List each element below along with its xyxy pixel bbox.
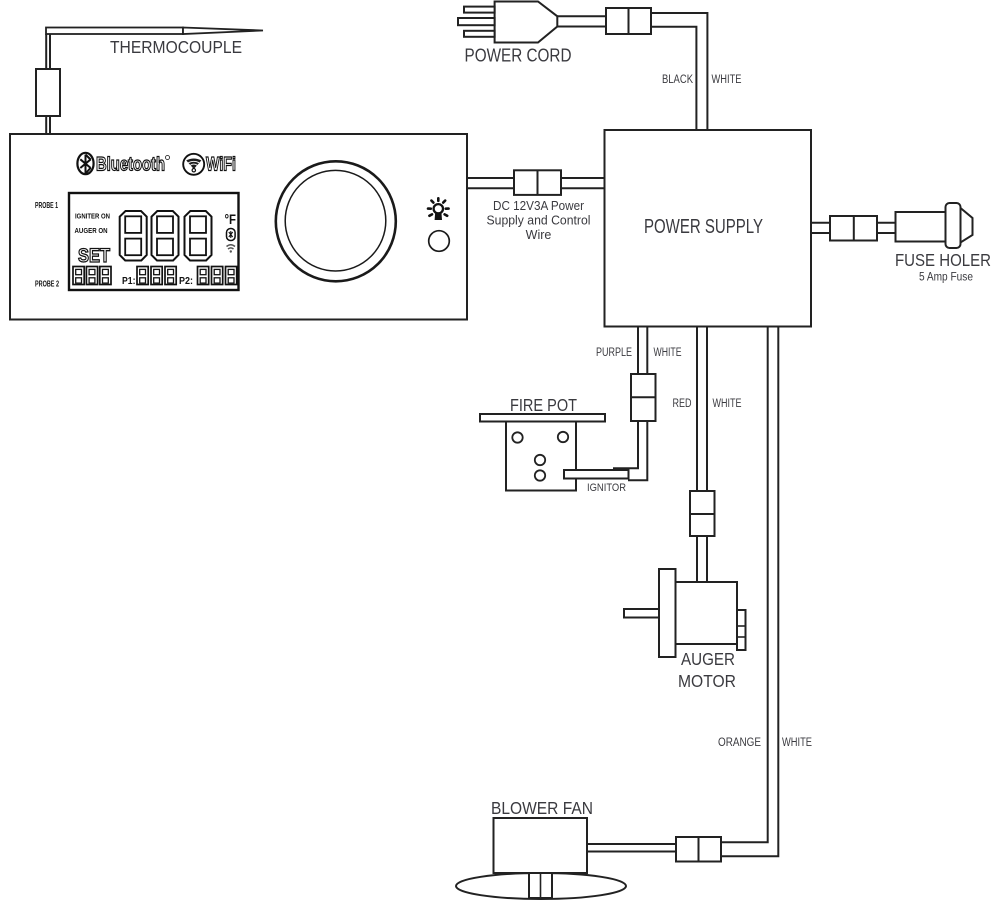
red/white wire pair upper (697, 327, 707, 492)
plug prong 3 (464, 31, 495, 37)
svg-text:POWER SUPPLY: POWER SUPPLY (644, 216, 763, 238)
svg-text:Bluetooth: Bluetooth (96, 154, 165, 176)
light icon (428, 198, 449, 220)
svg-text:WHITE: WHITE (712, 74, 742, 86)
fuse holder nose (961, 208, 973, 243)
thermocouple probe (46, 28, 263, 35)
thermocouple connector block (36, 69, 60, 116)
svg-text:PROBE 2: PROBE 2 (35, 280, 59, 289)
blower fan base ellipse (456, 873, 626, 899)
svg-text:IGNITER ON: IGNITER ON (75, 212, 110, 221)
power supply box (605, 130, 812, 327)
blower connector (676, 837, 721, 862)
auger motor terminals (737, 610, 746, 650)
wifi logo (183, 154, 236, 176)
power cord connector (606, 8, 651, 34)
svg-text:WHITE: WHITE (713, 398, 742, 410)
svg-text:IGNITOR: IGNITOR (587, 482, 626, 494)
LCD small digits group 1 (73, 267, 84, 285)
svg-text:WiFi: WiFi (206, 154, 236, 176)
thermocouple wire lower (46, 116, 50, 134)
fire pot hole 4 (535, 470, 545, 480)
svg-text:WHITE: WHITE (654, 347, 682, 359)
LCD big digit 3 (185, 211, 212, 261)
svg-text:MOTOR: MOTOR (678, 671, 736, 691)
plug prong 2 (458, 18, 495, 25)
feed button (429, 231, 450, 252)
LCD small digits group 2 (137, 267, 148, 285)
fire pot hole 1 (512, 432, 522, 442)
svg-text:FUSE HOLER: FUSE HOLER (895, 250, 991, 270)
auger connector (690, 491, 715, 536)
svg-text:BLOWER FAN: BLOWER FAN (491, 798, 593, 818)
knob inner ring (285, 170, 386, 271)
LCD bluetooth badge (227, 229, 236, 241)
svg-text:POWER CORD: POWER CORD (465, 45, 572, 66)
fire pot hole 2 (558, 432, 568, 442)
fuse connector (830, 216, 877, 241)
dc connector (514, 170, 561, 195)
auger motor body (676, 582, 738, 644)
fire pot body (506, 422, 576, 491)
thermocouple wire upper (46, 34, 50, 69)
svg-text:THERMOCOUPLE: THERMOCOUPLE (110, 37, 242, 57)
svg-text:°F: °F (225, 211, 237, 227)
ignitor bar (564, 470, 629, 479)
svg-text:SET: SET (78, 245, 110, 267)
orange/white wire pair (721, 327, 778, 857)
auger motor shaft (624, 609, 659, 618)
power cord wires (557, 16, 606, 26)
plug prong 1 (464, 7, 495, 13)
blower wires (587, 844, 676, 852)
svg-text:FIRE POT: FIRE POT (510, 395, 577, 415)
fire pot hole 3 (535, 455, 545, 465)
purple/white wire pair upper (638, 327, 647, 375)
label DC 12V3A Power Supply and Control Wire (487, 199, 591, 242)
fuse holder cap (946, 203, 961, 248)
svg-text:WHITE: WHITE (782, 737, 812, 749)
svg-text:P1:: P1: (122, 275, 136, 287)
svg-text:BLACK: BLACK (662, 74, 693, 86)
fuse wires from box (811, 223, 830, 233)
svg-text:PROBE 1: PROBE 1 (35, 201, 58, 210)
svg-text:AUGER: AUGER (681, 649, 735, 669)
blower fan hub (529, 873, 552, 898)
red/white wire pair lower (697, 536, 707, 582)
bluetooth logo (77, 153, 169, 176)
purple/white wire pair lower elbow (613, 421, 647, 480)
controller board (10, 134, 467, 320)
dc wire right pair (561, 178, 605, 188)
svg-text:Supply and Control: Supply and Control (487, 214, 591, 228)
LCD wifi badge (227, 245, 236, 253)
LCD big digit 2 (152, 211, 179, 261)
power cord down wires (black / white) (651, 13, 707, 130)
dc wire left pair (467, 178, 514, 188)
knob outer ring (276, 161, 396, 281)
fire pot flange (480, 414, 605, 422)
svg-text:DC 12V3A Power: DC 12V3A Power (493, 199, 584, 213)
svg-text:PURPLE: PURPLE (596, 347, 632, 359)
power cord plug body (495, 2, 558, 43)
igniter connector (631, 374, 656, 421)
svg-text:P2:: P2: (179, 275, 193, 287)
svg-text:Wire: Wire (526, 228, 552, 242)
LCD small digits group 3 (198, 267, 209, 285)
LCD big digit 1 (120, 211, 147, 261)
fuse wires to holder (877, 223, 896, 233)
svg-text:AUGER ON: AUGER ON (75, 226, 108, 235)
LCD bezel (69, 193, 239, 290)
auger motor flange (659, 569, 676, 657)
svg-text:5 Amp Fuse: 5 Amp Fuse (919, 270, 973, 284)
blower fan box (494, 818, 588, 873)
svg-text:ORANGE: ORANGE (718, 737, 761, 749)
fuse holder body (896, 212, 948, 242)
svg-text:RED: RED (673, 398, 692, 410)
